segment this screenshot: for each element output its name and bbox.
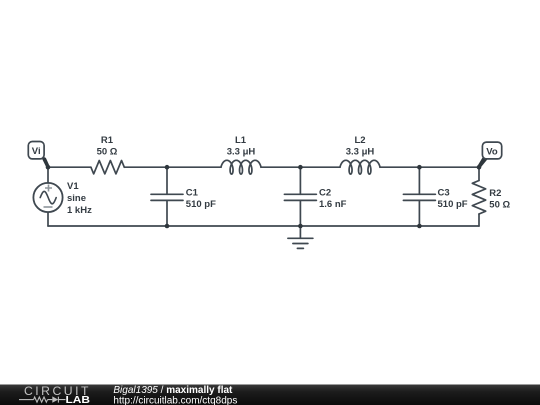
capacitor C2 plates (284, 194, 316, 200)
resistor R2 (472, 181, 485, 215)
logo wire and resistor (19, 397, 66, 403)
wire top rail left (Vi node to R1) (48, 166, 91, 168)
node C1 top junction (165, 165, 170, 170)
svg-text:C3: C3 (438, 188, 450, 199)
capacitor C1 plates (151, 194, 183, 200)
svg-text:1 kHz: 1 kHz (67, 205, 92, 216)
node C3 top junction (417, 165, 422, 170)
node C1 bottom junction (165, 224, 170, 229)
svg-text:510 pF: 510 pF (186, 199, 216, 210)
resistor R1 (91, 161, 124, 174)
inductor L1 (221, 160, 261, 174)
flag Vi pointer (42, 157, 50, 168)
wire V1 branch bottom (47, 212, 49, 226)
ground bars (288, 238, 313, 248)
flag Vo pointer (478, 157, 488, 168)
ground stub (299, 226, 301, 238)
node Vi/top-left junction (46, 165, 51, 170)
wire bottom rail (48, 225, 479, 227)
resistor R2 bottom stub (478, 214, 480, 226)
svg-text:R2: R2 (489, 188, 501, 199)
V1 plus sign (44, 185, 53, 208)
voltage source V1 circle (33, 183, 62, 212)
flag Vo box (482, 142, 501, 159)
svg-text:3.3 μH: 3.3 μH (227, 147, 256, 158)
svg-text:sine: sine (67, 193, 86, 204)
node C3 bottom junction (417, 224, 422, 229)
svg-text:1.6 nF: 1.6 nF (319, 199, 347, 210)
svg-text:C1: C1 (186, 188, 199, 199)
wire top rail L2 to R2 top (380, 166, 479, 168)
flag Vi box (28, 142, 44, 159)
svg-text:V1: V1 (67, 181, 79, 192)
svg-text:Vi: Vi (32, 146, 41, 157)
svg-text:R1: R1 (101, 135, 114, 146)
V1 sine glyph (40, 191, 56, 203)
svg-text:L1: L1 (235, 135, 247, 146)
capacitor C2 bottom stub (299, 200, 301, 226)
svg-text:C2: C2 (319, 188, 331, 199)
node C2 top junction (298, 165, 303, 170)
capacitor C2 top stub (299, 167, 301, 194)
capacitor C3 bottom stub (418, 200, 420, 226)
svg-text:50 Ω: 50 Ω (489, 200, 510, 211)
capacitor C3 plates (403, 194, 435, 200)
svg-text:http://circuitlab.com/ctq8dps: http://circuitlab.com/ctq8dps (113, 396, 237, 405)
capacitor C3 top stub (418, 167, 420, 194)
node C2/ground bottom junction (298, 224, 303, 229)
svg-text:3.3 μH: 3.3 μH (346, 147, 375, 158)
wire top rail L1 to L2 (261, 166, 340, 168)
inductor L2 (340, 160, 380, 174)
wire V1 branch top (47, 167, 49, 183)
node Vo/R2 top junction (477, 165, 482, 170)
svg-text:Vo: Vo (486, 146, 498, 157)
svg-text:50 Ω: 50 Ω (97, 147, 118, 158)
junction node dots (46, 165, 482, 228)
logo diode triangle (52, 396, 58, 402)
capacitor C1 top stub (166, 167, 168, 194)
svg-text:LAB: LAB (66, 395, 91, 405)
svg-text:Bigal1395 / maximally flat: Bigal1395 / maximally flat (113, 385, 233, 396)
resistor R2 top stub (478, 167, 480, 180)
svg-text:510 pF: 510 pF (438, 199, 468, 210)
capacitor C1 bottom stub (166, 200, 168, 226)
svg-text:L2: L2 (354, 135, 365, 146)
wire top rail R1 to L1 (124, 166, 221, 168)
V1 minus sign (44, 206, 53, 208)
